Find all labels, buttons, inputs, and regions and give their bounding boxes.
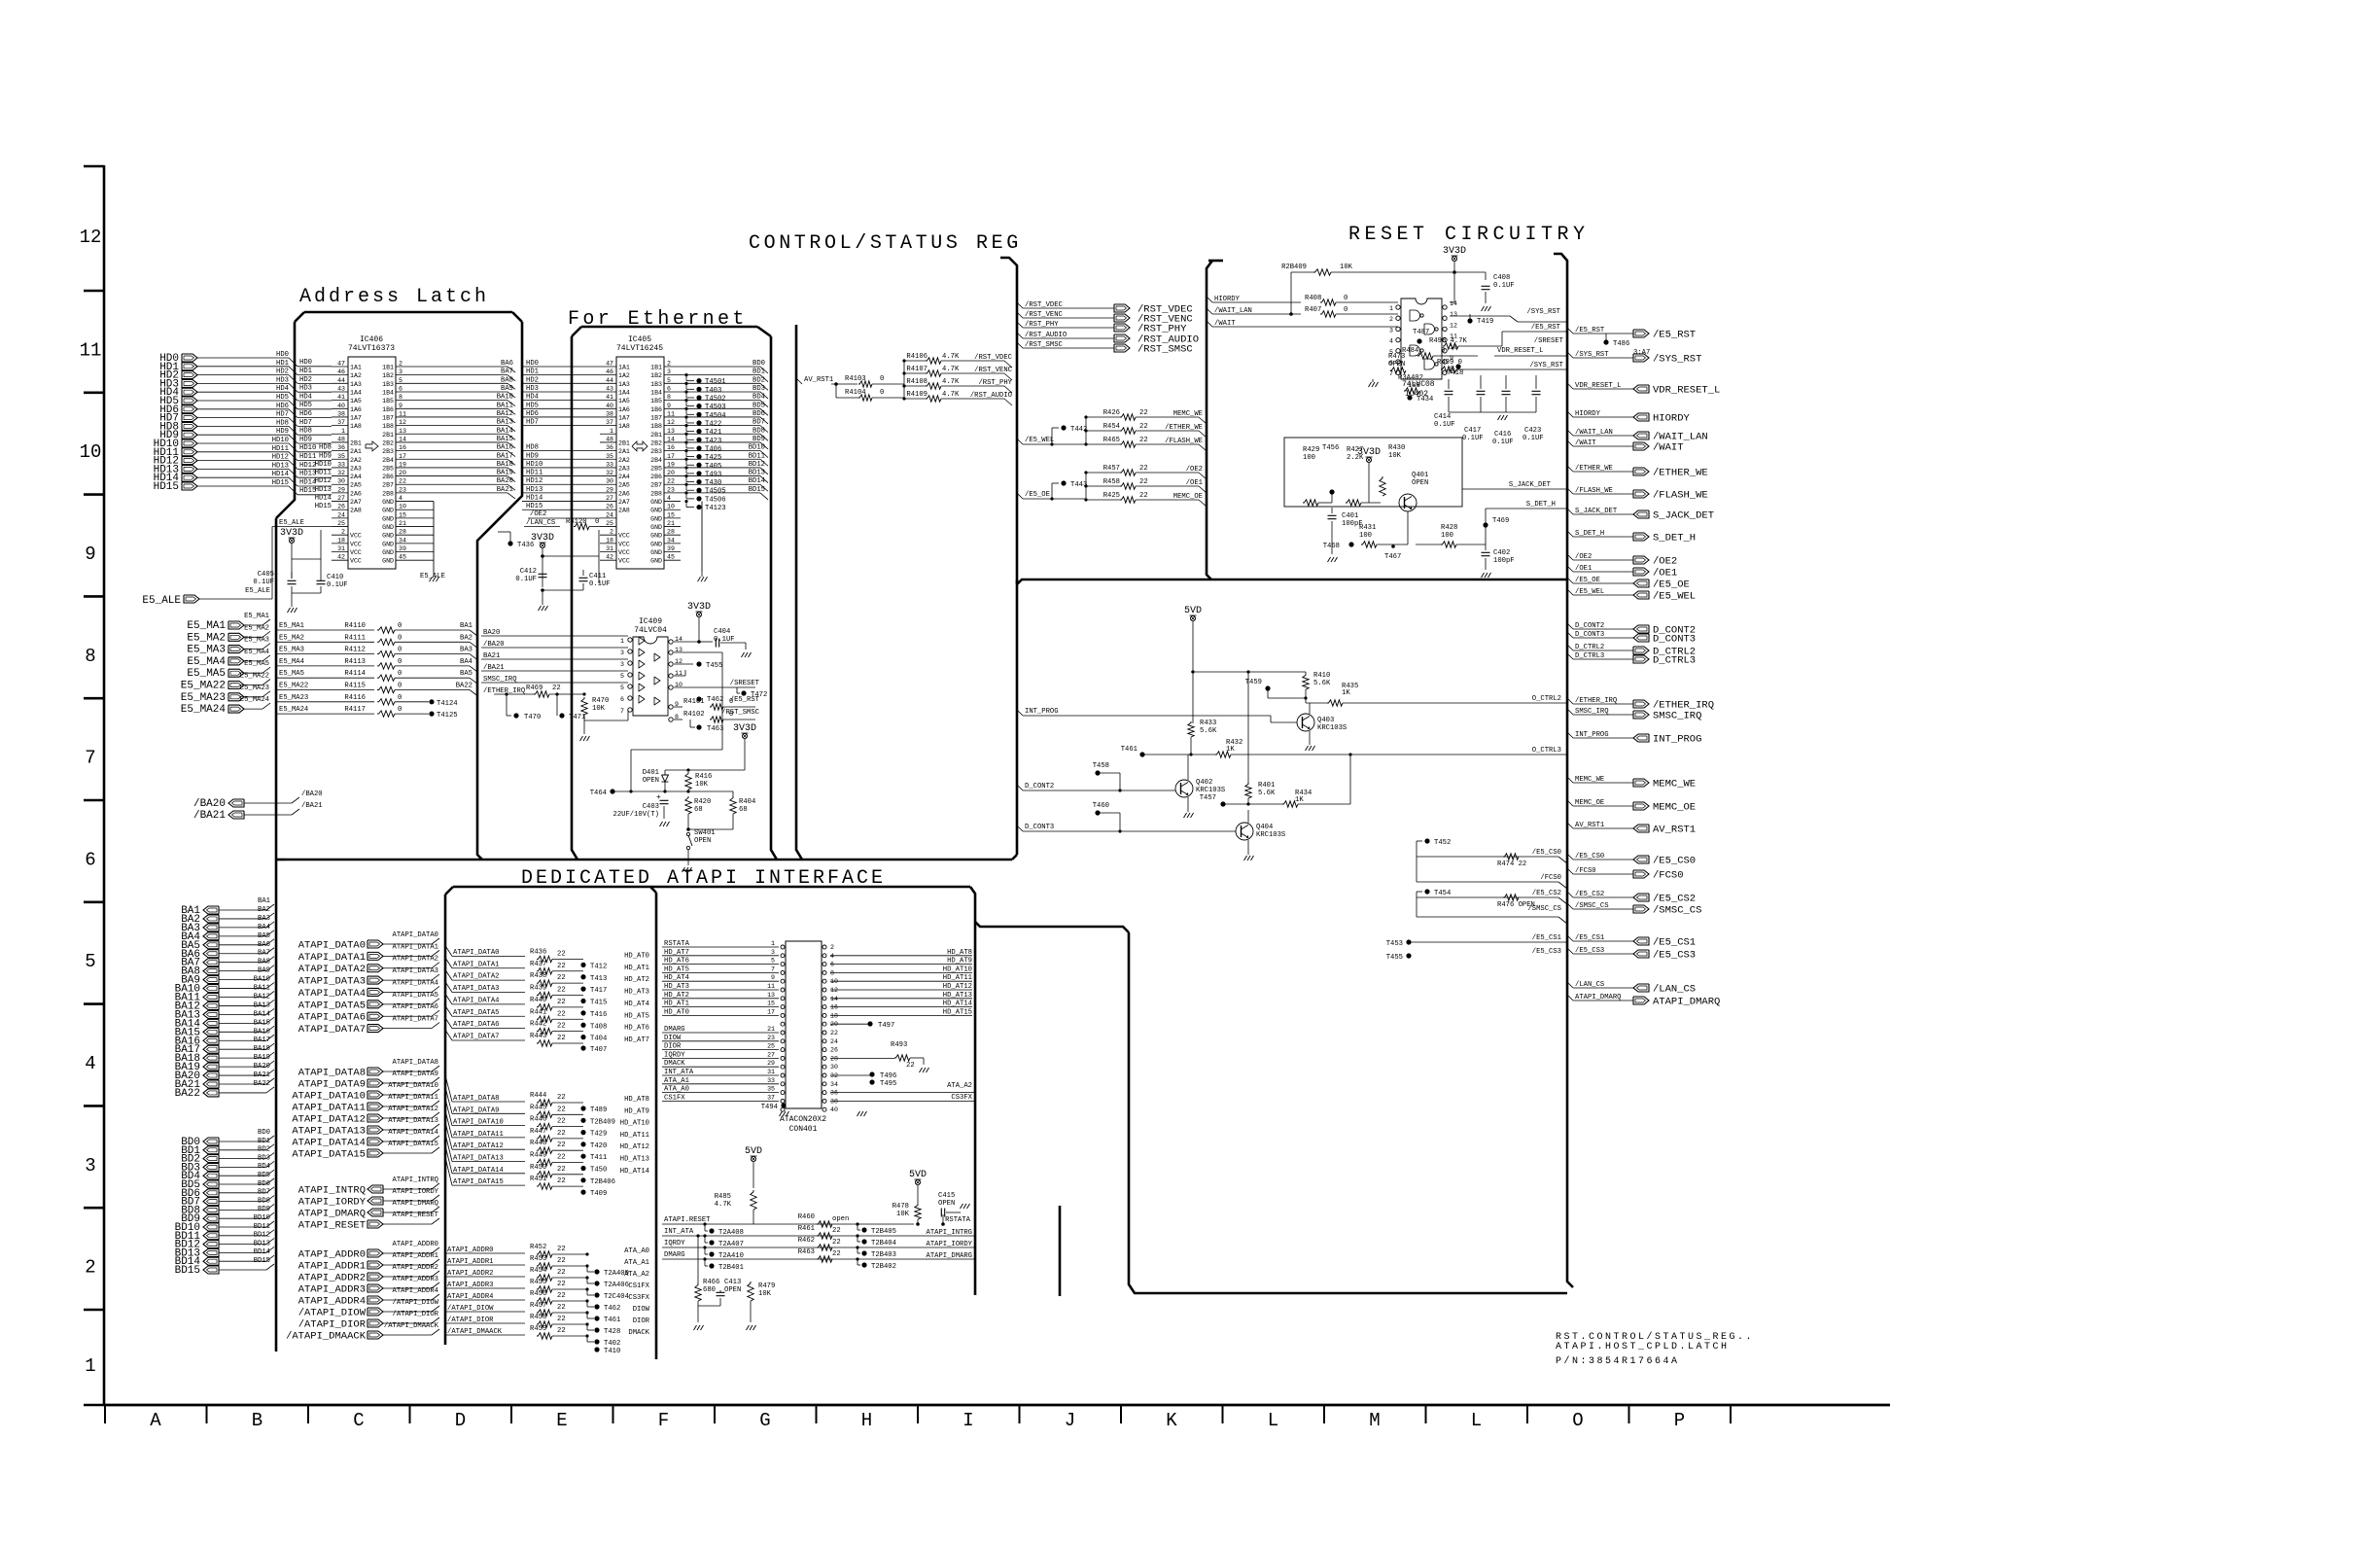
- svg-text:BD9: BD9: [752, 436, 765, 443]
- svg-text:ATAPI_DATA9: ATAPI_DATA9: [393, 1071, 438, 1078]
- svg-text:HD8: HD8: [276, 419, 289, 427]
- section outline: lower right box: [1129, 932, 1567, 1293]
- svg-text:2A5: 2A5: [350, 482, 362, 489]
- svg-text:T4506: T4506: [705, 496, 726, 504]
- svg-text:R459: R459: [530, 1325, 546, 1333]
- svg-text:34: 34: [399, 537, 406, 544]
- svg-text:C413: C413: [724, 1279, 741, 1286]
- svg-text:BA1: BA1: [460, 622, 472, 630]
- svg-text:VDR_RESET_L: VDR_RESET_L: [1497, 347, 1543, 355]
- svg-text:R4104: R4104: [845, 389, 866, 397]
- svg-text:7: 7: [85, 748, 95, 769]
- svg-text:ATAPI.HOST_CPLD.LATCH: ATAPI.HOST_CPLD.LATCH: [1556, 1342, 1730, 1352]
- svg-text:T453: T453: [1386, 940, 1403, 948]
- svg-text:BA16: BA16: [254, 1028, 270, 1036]
- svg-text:1B7: 1B7: [382, 414, 394, 421]
- svg-text:HD11: HD11: [526, 470, 542, 477]
- svg-text:2: 2: [667, 361, 671, 368]
- svg-text:HD14: HD14: [272, 471, 289, 478]
- svg-text:HD_AT8: HD_AT8: [624, 1096, 649, 1104]
- svg-text:29: 29: [337, 486, 345, 493]
- svg-text:R473: R473: [1388, 353, 1405, 361]
- svg-text:GND: GND: [650, 541, 662, 547]
- svg-text:22: 22: [557, 1094, 566, 1102]
- svg-text:R466: R466: [703, 1279, 719, 1286]
- svg-text:5: 5: [620, 685, 624, 691]
- svg-text:For Ethernet: For Ethernet: [568, 308, 748, 331]
- svg-text:10: 10: [80, 441, 102, 463]
- svg-text:VCC: VCC: [350, 533, 362, 540]
- svg-text:12: 12: [1450, 322, 1457, 329]
- bus: ATAPI inner vertical x=675: [655, 893, 658, 1359]
- svg-text:0: 0: [398, 694, 402, 702]
- svg-text:/RST_AUDIO: /RST_AUDIO: [970, 392, 1012, 400]
- resistor R470 10K: [581, 697, 587, 715]
- svg-text:T469: T469: [1492, 517, 1509, 525]
- svg-text:10K: 10K: [1340, 263, 1353, 271]
- svg-text:/FLASH_WE: /FLASH_WE: [1653, 490, 1708, 502]
- svg-text:/E5_CS0: /E5_CS0: [1532, 849, 1561, 857]
- svg-text:18: 18: [337, 537, 345, 544]
- svg-text:GND: GND: [382, 524, 394, 531]
- svg-text:HD13: HD13: [526, 486, 542, 494]
- svg-text:45: 45: [399, 554, 406, 561]
- ground: [1184, 813, 1187, 818]
- svg-text:OPEN: OPEN: [938, 1200, 955, 1208]
- node T462: [696, 696, 701, 701]
- svg-text:7: 7: [620, 708, 624, 715]
- svg-text:BA10: BA10: [254, 976, 270, 984]
- svg-text:42: 42: [337, 554, 345, 561]
- svg-text:22: 22: [557, 1292, 566, 1300]
- svg-text:A: A: [150, 1410, 161, 1431]
- svg-text:ATAPI_INTRQ: ATAPI_INTRQ: [393, 1176, 438, 1184]
- svg-text:/OE2: /OE2: [530, 510, 546, 518]
- svg-text:IQRDY: IQRDY: [664, 1240, 685, 1247]
- svg-text:ATAPI_DATA14: ATAPI_DATA14: [292, 1138, 366, 1149]
- svg-text:BD9: BD9: [258, 1206, 270, 1213]
- svg-text:HD_AT15: HD_AT15: [943, 1008, 972, 1016]
- svg-text:2B6: 2B6: [382, 474, 394, 480]
- svg-text:2B3: 2B3: [650, 448, 662, 455]
- svg-text:CS3FX: CS3FX: [628, 1294, 649, 1302]
- wire group: IC406 output bus BA6-BA21: [412, 366, 507, 368]
- svg-text:27: 27: [337, 495, 345, 502]
- svg-text:BD7: BD7: [258, 1189, 270, 1197]
- svg-text:HD_AT10: HD_AT10: [943, 966, 972, 973]
- svg-text:/E5_WEL: /E5_WEL: [1025, 437, 1054, 444]
- svg-text:D_CONT3: D_CONT3: [1653, 634, 1696, 646]
- svg-text:ATAPI_DATA7: ATAPI_DATA7: [453, 1034, 499, 1041]
- svg-text:26: 26: [337, 504, 345, 510]
- svg-text:HD5: HD5: [526, 402, 539, 409]
- svg-text:BD1: BD1: [752, 369, 765, 376]
- svg-text:37: 37: [337, 419, 345, 426]
- resistor R420 68: [685, 796, 691, 814]
- svg-text:CS3FX: CS3FX: [951, 1094, 972, 1102]
- svg-text:R485: R485: [715, 1193, 731, 1201]
- svg-text:T461: T461: [1121, 746, 1137, 754]
- svg-text:15: 15: [399, 511, 406, 518]
- svg-text:/OE1: /OE1: [1653, 568, 1677, 579]
- svg-text:22: 22: [399, 478, 406, 485]
- svg-text:R462: R462: [798, 1237, 815, 1245]
- svg-text:AV_RST1: AV_RST1: [1653, 825, 1696, 836]
- svg-text:/E5_OE: /E5_OE: [1653, 579, 1690, 591]
- svg-text:HD7: HD7: [526, 419, 539, 427]
- svg-text:10: 10: [667, 504, 675, 510]
- power 3V3D above D401 cluster: [742, 733, 747, 738]
- svg-text:R458: R458: [530, 1314, 546, 1321]
- svg-text:E5_MA3: E5_MA3: [187, 645, 226, 656]
- svg-text:2A8: 2A8: [618, 508, 630, 514]
- svg-text:22: 22: [557, 963, 566, 970]
- svg-text:BA16: BA16: [497, 444, 513, 452]
- svg-text:22: 22: [557, 1269, 566, 1277]
- svg-text:BA20: BA20: [254, 1063, 270, 1071]
- svg-text:B: B: [252, 1410, 262, 1431]
- svg-text:ATAPI_DATA2: ATAPI_DATA2: [453, 973, 499, 981]
- node S_JACK_DET (right edge): [1567, 509, 1573, 514]
- svg-text:E5_MA22: E5_MA22: [181, 681, 226, 692]
- svg-text:ATAPI_DATA0: ATAPI_DATA0: [393, 931, 438, 939]
- svg-text:1: 1: [341, 428, 345, 435]
- svg-text:BD4: BD4: [258, 1163, 270, 1171]
- svg-text:R401: R401: [1258, 782, 1275, 790]
- svg-text:R4102: R4102: [683, 711, 705, 719]
- svg-text:T494: T494: [761, 1104, 778, 1111]
- power 3V3D above IC409: [696, 612, 701, 616]
- svg-text:CS1FX: CS1FX: [628, 1282, 649, 1290]
- svg-text:C401: C401: [1342, 512, 1358, 520]
- svg-text:3: 3: [399, 369, 402, 375]
- svg-text:30: 30: [830, 1064, 838, 1071]
- transistor Q401 OPEN: [1399, 494, 1417, 511]
- svg-text:31: 31: [606, 545, 613, 552]
- svg-text:MEMC_WE: MEMC_WE: [1173, 410, 1203, 418]
- ground: [1482, 573, 1485, 578]
- svg-text:R425: R425: [1103, 492, 1120, 500]
- svg-text:/E5_CS3: /E5_CS3: [1653, 950, 1696, 962]
- svg-text:1: 1: [610, 428, 613, 435]
- svg-text:BA20: BA20: [497, 477, 513, 485]
- svg-text:HD15: HD15: [272, 479, 289, 487]
- svg-text:2A4: 2A4: [618, 474, 630, 480]
- svg-text:T408: T408: [590, 1023, 607, 1031]
- svg-text:5.6K: 5.6K: [1258, 790, 1276, 797]
- svg-text:T409: T409: [590, 1190, 607, 1198]
- svg-text:BA18: BA18: [254, 1045, 270, 1053]
- thin box around Q401 bias network: [1284, 438, 1462, 507]
- svg-text:/SYS_RST: /SYS_RST: [1529, 362, 1563, 369]
- svg-text:BA10: BA10: [497, 394, 513, 402]
- svg-text:OPEN: OPEN: [694, 837, 711, 845]
- svg-text:HD_AT12: HD_AT12: [620, 1143, 649, 1151]
- svg-text:HD10: HD10: [299, 444, 316, 452]
- svg-text:HD9: HD9: [276, 428, 289, 436]
- svg-text:VCC: VCC: [350, 541, 362, 547]
- svg-text:24: 24: [337, 511, 345, 518]
- svg-text:/ATAPI_DIOW: /ATAPI_DIOW: [298, 1308, 367, 1319]
- svg-text:HD_AT4: HD_AT4: [624, 1001, 649, 1008]
- svg-text:/ETHER_WE: /ETHER_WE: [1653, 468, 1708, 479]
- svg-text:Q403: Q403: [1317, 717, 1334, 724]
- svg-text:2A7: 2A7: [350, 499, 362, 506]
- svg-text:22: 22: [557, 1166, 566, 1174]
- svg-text:BA5: BA5: [258, 932, 270, 940]
- svg-text:ATAPI_IORDY: ATAPI_IORDY: [298, 1197, 367, 1209]
- svg-text:1K: 1K: [1342, 689, 1350, 697]
- svg-text:R451: R451: [530, 1176, 546, 1183]
- ground: [742, 652, 745, 657]
- bus: ATACON box right vertical x=1003: [970, 887, 975, 1295]
- IC U402 74LVC08 quad AND gate: [1401, 298, 1442, 379]
- node /WAIT (right edge): [1567, 440, 1573, 446]
- svg-text:36: 36: [830, 1090, 838, 1097]
- svg-text:2B1: 2B1: [650, 432, 662, 439]
- svg-text:BD0: BD0: [258, 1129, 270, 1137]
- svg-text:22: 22: [832, 1227, 841, 1235]
- svg-text:R458: R458: [1103, 478, 1120, 486]
- svg-text:BA11: BA11: [497, 402, 513, 409]
- svg-text:HD5: HD5: [299, 402, 312, 409]
- svg-text:22: 22: [557, 1035, 566, 1042]
- node D_CTRL2 (right edge): [1567, 645, 1573, 650]
- svg-text:CON401: CON401: [789, 1125, 818, 1134]
- svg-text:5VD: 5VD: [745, 1146, 762, 1157]
- svg-text:T2B405: T2B405: [871, 1228, 896, 1236]
- svg-text:8: 8: [830, 969, 834, 976]
- svg-text:34: 34: [830, 1081, 838, 1088]
- svg-text:T468: T468: [1323, 543, 1340, 550]
- svg-text:1B4: 1B4: [650, 389, 662, 396]
- svg-text:1A5: 1A5: [618, 398, 630, 404]
- svg-text:29: 29: [606, 486, 613, 493]
- svg-text:9: 9: [771, 974, 775, 981]
- svg-text:22: 22: [557, 1281, 566, 1288]
- svg-text:C414: C414: [1434, 413, 1451, 421]
- svg-text:6: 6: [85, 849, 95, 870]
- svg-text:T403: T403: [705, 387, 721, 395]
- svg-text:E5_ALE: E5_ALE: [279, 519, 304, 527]
- svg-text:11: 11: [80, 339, 102, 361]
- svg-text:25: 25: [767, 1043, 775, 1050]
- svg-text:R455: R455: [530, 1279, 546, 1286]
- svg-text:0: 0: [1441, 347, 1445, 355]
- svg-text:HD12: HD12: [272, 454, 289, 462]
- svg-text:23: 23: [399, 486, 406, 493]
- svg-text:ATAPI_DATA15: ATAPI_DATA15: [292, 1149, 366, 1161]
- svg-text:11: 11: [667, 410, 675, 417]
- svg-text:R454: R454: [530, 1267, 546, 1275]
- node T495: [869, 1079, 874, 1084]
- svg-text:Q401: Q401: [1412, 472, 1428, 479]
- capacitor C412 0.1UF: [539, 573, 547, 575]
- svg-text:D_CONT2: D_CONT2: [1025, 783, 1054, 790]
- power 3V3D for IC405: [540, 543, 544, 547]
- svg-text:ATAPI_DMARQ: ATAPI_DMARQ: [298, 1209, 366, 1220]
- svg-text:T2B401: T2B401: [718, 1264, 744, 1272]
- node /LAN_CS (right edge): [1567, 982, 1573, 988]
- svg-text:R4106: R4106: [906, 353, 927, 361]
- svg-text:BD12: BD12: [254, 1232, 270, 1240]
- svg-text:T4503: T4503: [705, 404, 726, 411]
- svg-text:3V3D: 3V3D: [733, 723, 756, 734]
- svg-text:/E5_CS2: /E5_CS2: [1653, 894, 1696, 905]
- switch SW401 OPEN: [686, 832, 689, 835]
- svg-text:BD5: BD5: [258, 1172, 270, 1179]
- svg-text:100: 100: [1441, 532, 1453, 540]
- svg-text:2A1: 2A1: [350, 448, 362, 455]
- node INT_PROG (right edge): [1567, 732, 1573, 738]
- svg-text:3V3D: 3V3D: [280, 528, 303, 539]
- svg-text:GND: GND: [650, 524, 662, 531]
- svg-text:4: 4: [667, 495, 671, 502]
- svg-text:0: 0: [398, 658, 402, 666]
- node /OE1 (right edge): [1567, 566, 1573, 572]
- ground: [780, 1111, 783, 1116]
- svg-text:5: 5: [85, 951, 95, 972]
- svg-text:39: 39: [667, 545, 675, 552]
- svg-text:VCC: VCC: [350, 558, 362, 565]
- svg-text:BD13: BD13: [749, 470, 765, 477]
- capacitor C423 0.1UF: [1532, 390, 1541, 392]
- svg-text:4: 4: [830, 953, 834, 960]
- node D_CTRL3 (right edge): [1567, 653, 1573, 659]
- svg-text:T4501: T4501: [705, 378, 726, 386]
- svg-text:6: 6: [620, 696, 624, 703]
- svg-text:ATAPI_DATA2: ATAPI_DATA2: [393, 956, 438, 964]
- node T419: [1467, 318, 1472, 323]
- svg-text:2: 2: [85, 1257, 95, 1279]
- svg-text:/ATAPI_DIOR: /ATAPI_DIOR: [393, 1311, 439, 1318]
- svg-text:1A5: 1A5: [350, 398, 362, 404]
- svg-text:33: 33: [337, 461, 345, 468]
- svg-text:HD8: HD8: [319, 444, 332, 452]
- svg-text:1A2: 1A2: [618, 372, 630, 379]
- svg-text:R407: R407: [1305, 306, 1321, 314]
- svg-text:4: 4: [85, 1053, 95, 1074]
- svg-text:BA2: BA2: [460, 634, 472, 642]
- svg-text:1A8: 1A8: [618, 423, 630, 430]
- svg-text:HD2: HD2: [526, 376, 539, 384]
- ground: [580, 736, 583, 741]
- svg-text:11: 11: [767, 983, 775, 990]
- svg-text:13: 13: [399, 428, 406, 435]
- svg-text:5: 5: [399, 377, 402, 384]
- svg-text:48: 48: [337, 436, 345, 442]
- svg-text:ATAPI_DATA1: ATAPI_DATA1: [393, 943, 438, 951]
- svg-text:7: 7: [771, 966, 775, 972]
- wire D_CONT3 row: [1017, 825, 1023, 831]
- svg-text:43: 43: [606, 385, 613, 392]
- svg-text:DMARG: DMARG: [664, 1251, 685, 1259]
- capacitor C416 0.1UF: [1502, 390, 1511, 392]
- svg-text:T463: T463: [707, 725, 723, 733]
- svg-text:BA6: BA6: [258, 941, 270, 949]
- svg-text:/ETHER_WE: /ETHER_WE: [1165, 424, 1203, 432]
- svg-text:F: F: [658, 1410, 669, 1431]
- svg-text:HD15: HD15: [154, 481, 179, 493]
- svg-text:R436: R436: [530, 948, 546, 956]
- svg-text:0.1UF: 0.1UF: [1493, 282, 1515, 290]
- section outline: ATAPI interface outer box: [453, 886, 970, 889]
- wire group /E5_CS2 /SMSC_CS: [1424, 889, 1429, 894]
- svg-text:T4504: T4504: [705, 412, 726, 420]
- svg-text:3: 3: [85, 1155, 95, 1176]
- svg-text:/BA20: /BA20: [301, 790, 323, 798]
- svg-text:33: 33: [767, 1077, 775, 1084]
- svg-text:22: 22: [557, 1141, 566, 1149]
- svg-text:R4114: R4114: [344, 670, 366, 678]
- svg-text:HD1: HD1: [299, 368, 312, 375]
- svg-text:E5_MA22: E5_MA22: [240, 673, 269, 681]
- svg-text:38: 38: [606, 410, 613, 417]
- svg-text:2.2K: 2.2K: [1347, 454, 1364, 462]
- svg-text:22: 22: [832, 1250, 841, 1258]
- svg-text:20: 20: [667, 470, 675, 476]
- svg-text:T406: T406: [705, 445, 721, 453]
- svg-text:T470: T470: [524, 714, 541, 721]
- svg-text:HD12: HD12: [315, 477, 332, 485]
- svg-text:S_DET_H: S_DET_H: [1653, 533, 1696, 544]
- svg-text:2: 2: [1389, 316, 1393, 323]
- svg-text:ATAPI_ADDR3: ATAPI_ADDR3: [393, 1276, 438, 1283]
- svg-text:Address Latch: Address Latch: [299, 286, 489, 308]
- node /E5_WEL (right edge): [1567, 589, 1573, 595]
- svg-text:44: 44: [337, 377, 345, 384]
- svg-text:8: 8: [667, 394, 671, 401]
- svg-text:E5_MA4: E5_MA4: [187, 656, 226, 668]
- resistor R4101 0: [674, 706, 682, 708]
- svg-text:17: 17: [767, 1008, 775, 1015]
- svg-text:IC406: IC406: [360, 335, 383, 344]
- svg-text:2B8: 2B8: [650, 490, 662, 497]
- svg-text:22: 22: [906, 1062, 915, 1070]
- svg-text:T462: T462: [707, 696, 723, 704]
- svg-text:HD2: HD2: [276, 369, 289, 376]
- svg-text:HD_AT7: HD_AT7: [624, 1036, 649, 1044]
- ground: [288, 608, 291, 613]
- svg-text:ATAPI_DATA7: ATAPI_DATA7: [298, 1024, 366, 1036]
- svg-text:ATAPI_ADDR3: ATAPI_ADDR3: [298, 1284, 366, 1296]
- svg-text:5.6K: 5.6K: [1200, 727, 1217, 735]
- svg-text:R452: R452: [530, 1244, 546, 1251]
- svg-text:34: 34: [667, 537, 675, 544]
- svg-text:37: 37: [606, 419, 613, 426]
- svg-text:E5_MA1: E5_MA1: [187, 620, 226, 632]
- svg-text:R498 4.7K: R498 4.7K: [1429, 337, 1468, 345]
- bus: mid horizontal y=596 to right bus: [1017, 579, 1567, 584]
- node /ETHER_WE (right edge): [1567, 466, 1573, 472]
- svg-text:MEMC_OE: MEMC_OE: [1173, 493, 1203, 501]
- svg-text:100: 100: [1303, 454, 1315, 462]
- svg-text:2B5: 2B5: [382, 465, 394, 472]
- svg-text:0: 0: [398, 634, 402, 642]
- svg-text:30: 30: [606, 478, 613, 485]
- svg-text:HD_AT12: HD_AT12: [943, 983, 972, 991]
- svg-text:22: 22: [557, 1177, 566, 1185]
- svg-text:BA1: BA1: [258, 897, 270, 905]
- svg-text:1B2: 1B2: [650, 372, 662, 379]
- svg-text:BD8: BD8: [258, 1197, 270, 1205]
- bus: Address Latch right edge x=537 stepping to x=491: [477, 322, 522, 860]
- svg-text:1: 1: [85, 1355, 95, 1377]
- svg-text:1K: 1K: [1295, 796, 1304, 804]
- svg-text:R429: R429: [1303, 446, 1319, 454]
- svg-text:1B1: 1B1: [650, 365, 662, 371]
- svg-text:2: 2: [610, 529, 613, 536]
